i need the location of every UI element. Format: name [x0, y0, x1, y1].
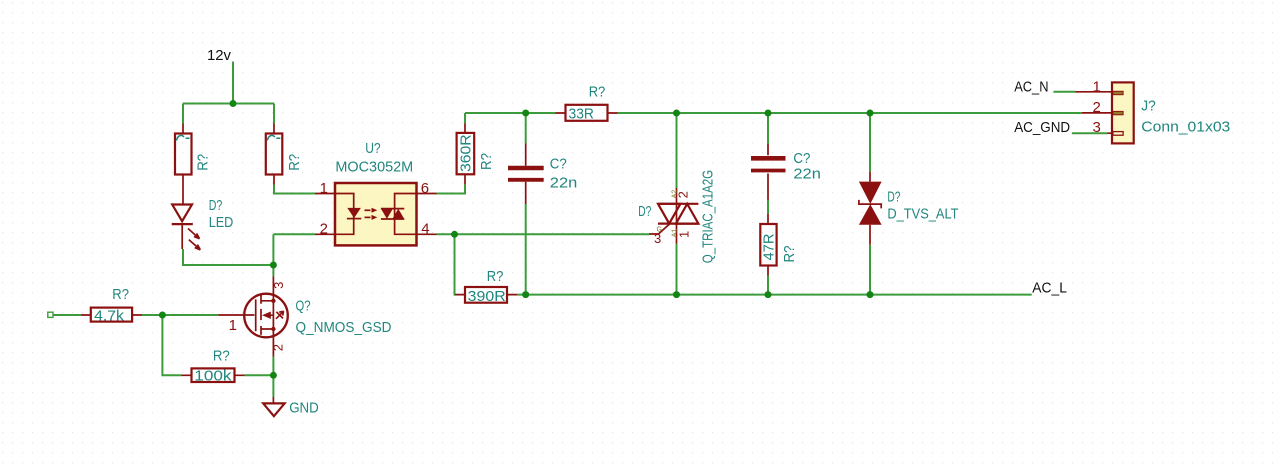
wire R1 top lead	[182, 104, 184, 124]
wire C2 top lead	[767, 113, 769, 144]
svg-text:2: 2	[270, 344, 285, 351]
svg-text:D_TVS_ALT: D_TVS_ALT	[887, 206, 958, 223]
svg-text:AC_L: AC_L	[1032, 280, 1067, 297]
wire C2 to 47R	[767, 200, 769, 214]
wire node column to NMOS drain	[272, 234, 274, 276]
wire NMOS source lead	[272, 357, 274, 376]
svg-text:D?: D?	[209, 197, 223, 214]
svg-text:R?: R?	[286, 154, 303, 171]
junction bottom bus TVS	[867, 291, 874, 298]
junction source node	[270, 372, 277, 379]
svg-text:4.7k: 4.7k	[94, 308, 124, 325]
node open wire end	[48, 312, 53, 317]
svg-text:GND: GND	[289, 400, 319, 417]
wire LED bottom rail	[183, 249, 273, 265]
svg-text:R?: R?	[589, 83, 606, 100]
junction bottom bus 47R	[765, 291, 772, 298]
wire node to NMOS gate	[162, 314, 218, 316]
junction top bus TVS	[867, 110, 874, 117]
wire to opto pin2	[273, 233, 315, 235]
wire opto pin4 to node	[437, 233, 455, 235]
svg-text:1: 1	[1092, 79, 1100, 96]
wire TVS bottom lead	[869, 245, 871, 295]
wire C1 top lead	[525, 113, 527, 144]
svg-text:LED: LED	[209, 214, 234, 231]
svg-text:33R: 33R	[569, 106, 595, 123]
svg-text:47R: 47R	[761, 233, 778, 260]
wire top-left rail	[183, 103, 274, 105]
connector J? Conn_01x03	[1076, 79, 1231, 144]
wire AC_GND stub	[1072, 132, 1108, 134]
svg-text:6: 6	[421, 180, 429, 197]
resistor R? 360R	[457, 123, 495, 184]
resistor R? (right pull-up)	[266, 124, 303, 185]
wire 4.7k to node	[142, 314, 162, 316]
svg-text:R?: R?	[195, 154, 212, 171]
junction LED rail	[270, 262, 277, 269]
svg-text:A1: A1	[671, 229, 678, 238]
svg-text:4: 4	[421, 220, 429, 237]
LED D?	[172, 185, 234, 250]
wire bottom bus	[517, 294, 1032, 296]
resistor R? 33R	[556, 83, 618, 122]
transistor Q? Q_NMOS_GSD	[218, 276, 391, 356]
svg-text:22n: 22n	[550, 175, 578, 192]
junction pin4 node	[451, 231, 458, 238]
svg-text:1: 1	[677, 231, 692, 238]
svg-text:Conn_01x03: Conn_01x03	[1141, 119, 1230, 136]
wire top bus left	[465, 112, 556, 114]
junction 12v	[230, 100, 237, 107]
wire R2 top lead	[273, 104, 275, 124]
resistor R? 47R	[760, 214, 798, 276]
junction bottom bus triac	[673, 291, 680, 298]
wire top bus right	[618, 112, 1082, 114]
svg-text:1: 1	[229, 317, 237, 334]
svg-text:390R: 390R	[468, 288, 506, 305]
svg-text:2: 2	[320, 220, 328, 237]
junction top bus C1	[522, 110, 529, 117]
wire gate net to triac	[455, 233, 650, 235]
svg-text:R?: R?	[478, 153, 495, 170]
optocoupler U? MOC3052M	[315, 140, 437, 246]
svg-text:U?: U?	[365, 140, 380, 157]
wire triac bottom lead	[676, 244, 678, 295]
svg-text:3: 3	[1092, 119, 1100, 136]
svg-text:1: 1	[320, 180, 328, 197]
svg-text:360R: 360R	[457, 134, 474, 172]
svg-text:C?: C?	[550, 156, 567, 173]
wire drop to 100k	[162, 315, 181, 375]
wire C1 bottom lead	[525, 204, 527, 295]
svg-text:AC_N: AC_N	[1014, 79, 1048, 96]
svg-text:MOC3052M: MOC3052M	[335, 159, 413, 176]
wire 100k to node	[245, 374, 274, 376]
resistor R? 4.7k	[81, 286, 142, 325]
svg-text:R?: R?	[112, 286, 129, 303]
svg-text:2: 2	[1092, 99, 1100, 116]
svg-text:100k: 100k	[194, 368, 232, 385]
wire 360R top lead	[464, 113, 466, 123]
junction top bus C2	[765, 110, 772, 117]
junction bottom bus 390R	[522, 291, 529, 298]
wire GND drop	[272, 375, 274, 397]
svg-text:22n: 22n	[793, 166, 821, 183]
svg-text:3: 3	[271, 282, 286, 289]
junction gate node	[159, 312, 166, 319]
svg-text:R?: R?	[487, 268, 504, 285]
triac D? Q_TRIAC_A1A2G	[638, 170, 716, 263]
diode D? D_TVS_ALT	[859, 172, 959, 245]
wire 12v stub	[232, 62, 234, 104]
ground	[263, 403, 284, 416]
svg-text:D?: D?	[887, 189, 900, 206]
wire AC_N stub	[1054, 91, 1076, 93]
svg-text:R?: R?	[213, 347, 230, 364]
wire opto pin6 to 360R	[437, 184, 466, 193]
svg-text:D?: D?	[638, 203, 651, 220]
wire TVS top lead	[869, 113, 871, 172]
svg-text:J?: J?	[1141, 98, 1156, 115]
svg-text:C?: C?	[793, 150, 810, 167]
resistor R? 390R	[455, 268, 517, 305]
svg-text:A2: A2	[671, 190, 678, 199]
svg-text:G: G	[657, 227, 662, 234]
wire triac top lead	[676, 113, 678, 188]
svg-text:R?: R?	[781, 246, 798, 263]
svg-text:AC_GND: AC_GND	[1014, 119, 1070, 136]
svg-text:Q_TRIAC_A1A2G: Q_TRIAC_A1A2G	[700, 170, 717, 263]
junction top bus triac	[673, 110, 680, 117]
capacitor C? 22n (left)	[508, 144, 577, 205]
wire R2 to opto pin1	[274, 185, 315, 194]
wire drop to 390R	[454, 234, 457, 294]
resistor R? 100k	[182, 347, 245, 384]
svg-text:Q_NMOS_GSD: Q_NMOS_GSD	[296, 319, 392, 336]
capacitor C? 22n (right)	[751, 144, 821, 200]
wire 47R bottom lead	[767, 276, 769, 295]
resistor R? (left pull-up)	[175, 124, 212, 185]
wire gate row left	[53, 314, 81, 316]
svg-text:Q?: Q?	[296, 298, 311, 315]
svg-text:12v: 12v	[207, 47, 231, 64]
